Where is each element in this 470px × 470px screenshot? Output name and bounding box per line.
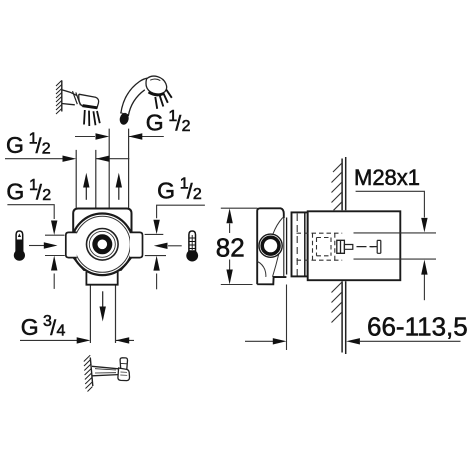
svg-text:2: 2 (182, 118, 191, 135)
svg-text:G: G (146, 110, 164, 136)
sleeve (292, 212, 308, 276)
side port ring (259, 234, 282, 257)
mid ring thin (89, 231, 115, 257)
svg-text:/: / (175, 113, 181, 136)
svg-text:82: 82 (216, 233, 245, 263)
flow arrow down bottom pipe (102, 291, 104, 307)
wire bottom pipe lines (90, 285, 115, 344)
valve body front (73, 209, 131, 270)
66-113,5 dimension (245, 340, 274, 342)
svg-text:66-113,5: 66-113,5 (367, 311, 468, 341)
bottom tab (86, 272, 117, 285)
dimension left pipe (5, 158, 63, 160)
icon hand shower (119, 76, 172, 126)
wall upper hatch (332, 163, 343, 210)
right port ticks (145, 234, 166, 255)
right port (130, 232, 143, 257)
label G1/2 left mid (6, 177, 51, 205)
82 dimension arrows (229, 224, 231, 234)
svg-text:G: G (6, 132, 24, 158)
M28 up arrow (423, 275, 425, 301)
leader label3 right G1/2 (157, 205, 205, 218)
svg-text:G: G (21, 314, 39, 340)
centerline dashes (357, 246, 374, 248)
flow arrow up left pipe (85, 186, 87, 200)
up arrow left port dim (53, 274, 55, 289)
M28 tube lines (354, 233, 437, 259)
icon bath spout (84, 355, 130, 391)
svg-text:4: 4 (57, 323, 66, 340)
svg-text:/: / (36, 181, 42, 204)
dimension G3/4 bottom (20, 339, 77, 341)
wall lower (342, 281, 346, 354)
wall upper (342, 157, 346, 210)
icon wall shower head (56, 80, 100, 126)
up arrow right port dim (156, 274, 158, 290)
svg-text:2: 2 (42, 141, 51, 158)
cartridge dashed box (297, 233, 343, 260)
side body back plate (257, 208, 286, 284)
leader label2 left G1/2 (7, 205, 54, 219)
M28 leader (356, 191, 425, 217)
svg-text:/: / (36, 135, 42, 158)
socket ring thick (95, 237, 110, 252)
side body contours (258, 218, 283, 277)
screw end (371, 240, 381, 253)
svg-text:2: 2 (42, 187, 51, 204)
flow arrow up right pipe (118, 186, 120, 200)
wire top-right pipe lines (109, 129, 128, 210)
svg-text:M28x1: M28x1 (354, 165, 420, 190)
label G3/4 bottom (21, 313, 66, 340)
inlet arrow left (hot) (29, 245, 44, 247)
main cylinder (308, 211, 401, 280)
dimension right pipe (top) (75, 136, 95, 138)
svg-text:/: / (187, 180, 193, 203)
wire top-left pipe lines (76, 150, 96, 210)
thermometer cold (186, 231, 198, 262)
inner circle thin (74, 216, 130, 272)
wall lower hatch (332, 282, 343, 323)
66-113,5 extension line (286, 285, 288, 351)
label G1/2 top-left (6, 130, 51, 158)
flange (286, 218, 288, 275)
label G1/2 right mid (157, 176, 202, 204)
mid ring (87, 229, 119, 261)
82 extension lines (221, 208, 258, 284)
left port ticks (45, 235, 65, 255)
inlet arrow right (cold) (168, 245, 182, 247)
outer circle (72, 214, 134, 276)
label G1/2 top-right (146, 108, 191, 136)
svg-text:G: G (6, 178, 24, 204)
svg-text:G: G (157, 177, 175, 203)
svg-text:2: 2 (193, 186, 202, 203)
thermometer hot (14, 231, 25, 261)
spindle bolt (337, 240, 345, 253)
svg-text:/: / (50, 317, 56, 340)
left port (66, 232, 77, 257)
